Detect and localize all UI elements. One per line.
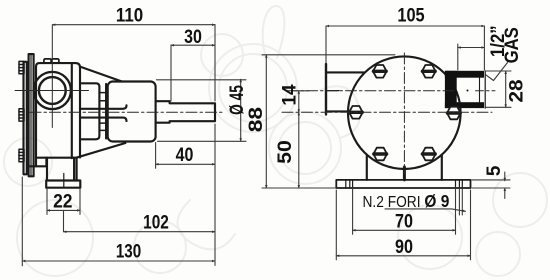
dimension d45 line [240, 79, 242, 141]
svg-text:88: 88 [246, 107, 267, 133]
extension line 130 left [21, 177, 23, 266]
foot right edge [73, 158, 75, 181]
dimension 90 line [336, 255, 470, 257]
dimension 40 line [156, 163, 215, 165]
gas thread dimension [458, 47, 485, 49]
dimension 130 line [22, 260, 215, 262]
svg-text:105: 105 [397, 4, 424, 25]
dimension 22 line [47, 209, 80, 211]
right view centerlines [282, 53, 495, 174]
dimension 102 connector [63, 210, 65, 231]
foot center tick [63, 174, 65, 187]
extension 14 top [293, 90, 309, 92]
dimension 70 line [353, 229, 456, 231]
extension 5 top [472, 179, 510, 181]
outlet port right thin edge [484, 71, 486, 108]
bolt stack bottom [19, 149, 24, 161]
svg-text:30: 30 [184, 26, 202, 48]
shaft internal bottom line with hook [80, 118, 126, 122]
base slot left lines [346, 180, 353, 188]
dimension 5 vertical [504, 172, 506, 181]
extension 90 left [335, 190, 337, 260]
extension line 40 left [155, 143, 157, 169]
neck right line [105, 84, 107, 139]
left view centerlines [15, 26, 222, 128]
dimension 110 line [52, 24, 215, 26]
port centerline vertical [51, 26, 53, 128]
extension line 22 left [46, 189, 48, 214]
bolts: hexagon with center line [349, 65, 461, 160]
neck rung 3 [99, 122, 106, 124]
flange plate 1 [24, 62, 27, 175]
outlet port top bar [445, 71, 484, 78]
svg-text:N.2 FORI Ø 9: N.2 FORI Ø 9 [363, 191, 450, 211]
extension 5 bottom [472, 187, 510, 189]
body bottom edge [36, 157, 76, 159]
extension line shaft end vertical [214, 25, 216, 101]
neck rung 1 [99, 92, 106, 94]
port outer circle [34, 72, 71, 109]
extension line d45 bottom [158, 140, 247, 142]
svg-text:90: 90 [395, 236, 413, 258]
inlet port bottom [326, 110, 349, 112]
extension base bottom left [262, 187, 336, 189]
outlet port bore edge line [479, 78, 481, 103]
pump body block [36, 63, 80, 166]
svg-text:40: 40 [176, 144, 194, 166]
svg-text:110: 110 [116, 5, 143, 26]
svg-text:70: 70 [395, 210, 413, 232]
bearing housing [108, 82, 156, 142]
extension line 22 right [79, 189, 81, 214]
outlet port 1/2 GAS [445, 71, 485, 108]
extension 70 left [352, 188, 354, 234]
extension 70 right [455, 188, 457, 234]
dimension 14-50 vertical [298, 91, 300, 113]
svg-text:Ø 45: Ø 45 [226, 85, 248, 115]
port centerline horizontal [15, 90, 89, 92]
top bolt bumps [44, 59, 51, 63]
bolt top-left [373, 65, 387, 78]
svg-text:102: 102 [143, 211, 169, 233]
svg-text:50: 50 [275, 140, 296, 164]
extension 105 left [325, 26, 327, 63]
taper cone bottom edge [76, 143, 125, 158]
foot right edge outer [76, 158, 78, 181]
base plate [336, 180, 470, 188]
bolt stack middle [19, 109, 24, 121]
shaft internal top line with hook [80, 105, 126, 109]
bolt left [349, 106, 363, 119]
svg-text:22: 22 [53, 190, 72, 212]
gas leader [486, 63, 508, 81]
main centerline right view [282, 111, 492, 113]
neck rung 2 [99, 100, 106, 102]
svg-text:14: 14 [280, 84, 301, 106]
dimension 105 line [326, 25, 484, 27]
slot extensions below plate [458, 188, 460, 215]
svg-text:28: 28 [506, 79, 527, 102]
inlet port mid tick [326, 90, 339, 92]
svg-text:5: 5 [484, 165, 505, 176]
pump front circle [348, 56, 461, 169]
extension 105 right [483, 26, 485, 70]
dimension 88 vertical [265, 55, 267, 188]
extension 28 top [486, 70, 511, 72]
port bore circle [39, 77, 66, 104]
outlet port left block [445, 71, 457, 108]
extension line d45 top [157, 79, 247, 81]
foot pad [46, 181, 80, 188]
outlet port bottom bar [445, 102, 484, 108]
extension 90 right [470, 190, 472, 260]
body cover seam [71, 63, 73, 158]
extension line 30 [170, 45, 172, 101]
right leg [441, 155, 443, 180]
extension 28 bottom [486, 106, 511, 108]
base slot right lines [456, 180, 463, 188]
foot left edge [46, 158, 48, 181]
shaft collar and stub shaft top [156, 101, 215, 123]
dimension 30 line [171, 44, 215, 46]
left leg [366, 155, 368, 180]
dimension 102 line [64, 231, 216, 233]
outlet port bore center dot [467, 90, 469, 92]
bolt right [447, 107, 461, 120]
svg-text:GAS: GAS [501, 27, 522, 63]
body lower lip [30, 158, 46, 167]
neck left line [80, 83, 99, 139]
flange plate 2 inner line [30, 54, 32, 176]
inlet port top [326, 71, 364, 73]
taper cone top edge [80, 67, 122, 82]
bolt bottom-left [373, 148, 387, 161]
inlet port face [325, 64, 327, 115]
vertical centerline right view [403, 53, 405, 174]
center parting line [403, 167, 406, 180]
extension 88 top [262, 54, 395, 56]
bolt top-right [422, 65, 436, 78]
dimension 28 vertical [505, 71, 507, 107]
fori leader underline [385, 209, 466, 211]
neck rung 4 [99, 129, 106, 131]
bolt bottom-right [422, 148, 436, 161]
bolt stack top [19, 61, 24, 73]
flange plate 2 [29, 54, 34, 176]
svg-text:130: 130 [116, 240, 141, 262]
port axis centerline [287, 90, 456, 92]
main centerline horizontal [30, 111, 222, 113]
